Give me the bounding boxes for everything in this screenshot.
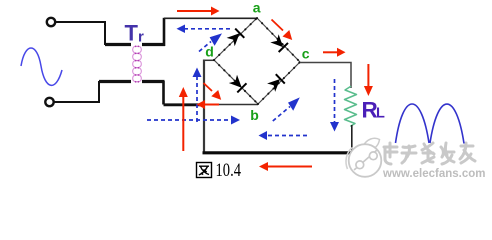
blue dashed arrow up toward d xyxy=(193,68,202,123)
svg-text:L: L xyxy=(376,106,385,122)
caption 图 10.4 xyxy=(197,163,212,178)
blue dashed arrow up-right toward c xyxy=(273,97,300,121)
terminal bottom xyxy=(45,98,53,106)
svg-text:b: b xyxy=(250,107,259,123)
diode D3 xyxy=(228,74,246,92)
terminal top xyxy=(47,18,55,26)
red arrow up left of d vertical xyxy=(179,87,188,151)
red arrow bottom left long xyxy=(259,162,312,171)
red arrow down to RL xyxy=(364,64,373,96)
svg-text:T: T xyxy=(125,21,139,46)
wire secondary riser xyxy=(163,18,166,46)
svg-text:10.4: 10.4 xyxy=(216,161,242,181)
red arrow on a-c xyxy=(272,20,293,41)
blue dashed arrow top return xyxy=(177,25,231,34)
resistor RL xyxy=(345,87,357,127)
wire primary bottom lead xyxy=(54,82,131,102)
svg-text:a: a xyxy=(253,0,261,16)
wire primary top bar xyxy=(105,43,131,46)
bridge edge b-c xyxy=(258,62,300,104)
red arrow top rail xyxy=(177,7,220,16)
blue dashed arrow toward a xyxy=(199,33,222,51)
wire d stub xyxy=(204,59,215,61)
watermark logo badge xyxy=(346,138,381,177)
diode D4 xyxy=(267,74,285,92)
blue dashed arrow right mid xyxy=(147,116,240,125)
bridge edge d-b xyxy=(214,60,258,104)
wire secondary top bar xyxy=(142,43,165,46)
bridge edge d-a xyxy=(214,18,257,60)
wire node c to RL xyxy=(300,63,351,89)
blue dashed arrow down at RL left xyxy=(330,79,339,132)
red arrow at c xyxy=(323,48,346,57)
wire secondary bottom bar xyxy=(142,80,165,83)
wire RL bottom xyxy=(351,125,353,152)
rectified waveform xyxy=(396,104,430,143)
bridge edge a-c xyxy=(257,18,300,62)
sine wave source xyxy=(21,48,62,85)
wire top rail to node a xyxy=(164,17,257,19)
red arrow diagonal d to b xyxy=(204,83,222,100)
wire d vertical xyxy=(203,60,205,153)
watermark CJK text xyxy=(384,143,475,164)
wire to node b xyxy=(204,104,258,106)
wire secondary to crossing xyxy=(164,103,205,106)
wire bottom rail xyxy=(203,151,353,154)
wire primary bottom bar xyxy=(99,80,131,83)
red arrow left on b wire xyxy=(197,100,220,109)
transformer T1 coil primary xyxy=(133,46,136,82)
wire secondary down lead xyxy=(162,81,165,105)
diode D1 xyxy=(226,29,244,47)
svg-text:c: c xyxy=(302,46,310,62)
diode D2 xyxy=(270,34,288,52)
wire primary top lead xyxy=(56,22,131,44)
blue dashed arrow left at bottom of RL xyxy=(259,131,308,140)
transformer T1 coil secondary xyxy=(138,46,141,82)
svg-text:www.elecfans.com: www.elecfans.com xyxy=(382,168,485,180)
